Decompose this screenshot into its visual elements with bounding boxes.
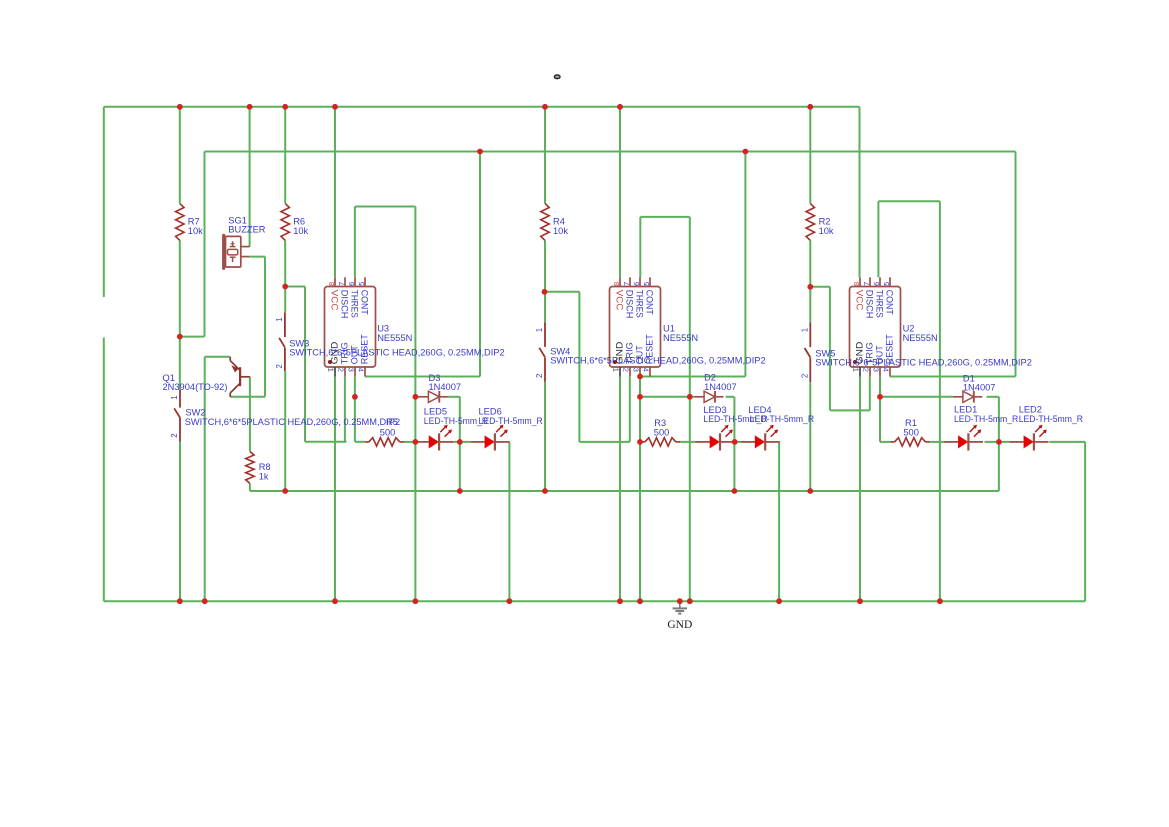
svg-text:7: 7 [337,282,346,286]
resistor R6 [281,203,289,240]
wire reset rail left drop [204,152,206,337]
junction [732,488,738,494]
svg-text:4: 4 [357,368,366,372]
wire R1 to LED1 [930,441,944,443]
svg-text:BUZZER: BUZZER [228,225,265,235]
svg-text:5: 5 [882,282,891,286]
op-amp U2 (NE555N timer) [850,277,901,376]
resistor R7 [176,203,184,240]
wire SW3 bottom to mid rail [284,371,286,491]
svg-text:1: 1 [170,395,179,399]
svg-text:CONT: CONT [884,290,894,316]
resistor R5 [365,438,404,446]
junction [743,149,749,155]
junction [332,598,338,604]
wire reset rail horizontal [205,151,1016,153]
wire U2 VCC drop [859,107,861,277]
LED LED5 [415,425,454,451]
diode D1 [953,391,982,403]
svg-text:THRES: THRES [634,290,644,318]
junction [332,104,338,110]
wire base to R8 [249,377,251,452]
svg-text:NE555N: NE555N [903,333,938,343]
LED LED1 [944,425,983,451]
svg-text:3: 3 [632,368,641,372]
svg-text:U3: U3 [377,323,389,333]
junction [177,334,183,340]
svg-text:NE555N: NE555N [377,333,412,343]
LED LED3 [695,425,734,451]
wire D1 cathode link [987,396,999,398]
wire U2 gnd pin column [859,377,861,602]
wire to U2 pin4 [890,376,1015,378]
svg-text:500: 500 [903,427,919,437]
ground [667,601,692,631]
wire R4 top [544,107,546,204]
wire U1 reset row [640,376,745,378]
junction [282,104,288,110]
wire ground rail [104,600,1085,602]
wire buzzer top feed [249,107,251,247]
transistor Q1 [230,357,250,397]
svg-text:1: 1 [612,368,621,372]
junction [877,394,883,400]
wire U3 bracket top [355,206,416,208]
wire LED2 cathode drop [1084,442,1086,601]
wire D3 cathode link [448,396,460,398]
wire U1 VCC column [619,107,621,277]
svg-text:THRES: THRES [874,290,884,318]
buzzer SG1 [224,235,250,268]
wire U1 reset riser [744,152,746,377]
junction [776,598,782,604]
wire VCC top rail [104,106,860,108]
wire emitter column to ground [204,357,206,601]
wire SW4 bottom to mid rail [544,382,546,491]
svg-text:8: 8 [852,282,861,286]
wire U3 out pin drop [354,377,356,442]
stray ellipse mark [554,75,560,79]
resistor R4 [541,203,549,240]
op-amp U3 (NE555N timer) [325,277,376,376]
wire U3 VCC column [334,107,336,277]
svg-text:3: 3 [872,368,881,372]
wire LED2 cathode run [1049,441,1085,443]
wire collector row [230,396,265,398]
wire U2 out elbow [880,441,891,443]
junction [352,394,358,400]
wire R8 bottom [249,483,251,491]
wire D2 anode row [640,396,694,398]
wire D1 anode row [880,396,953,398]
svg-text:GND: GND [667,619,692,631]
wire branch drop block2 [578,292,580,442]
resistor R3 [641,438,680,446]
wire R2 node branch [810,286,830,288]
wire R3 to LED3 [679,441,695,443]
junction [413,598,419,604]
svg-text:1: 1 [800,328,809,332]
svg-text:6: 6 [872,282,881,286]
svg-text:8: 8 [327,282,336,286]
svg-text:2: 2 [535,374,544,378]
wire reset rail elbow to Q1 node [180,336,205,338]
switch SW4 [535,322,545,382]
resistor R1 [891,438,930,446]
wire U2 bracket leg to ground [939,201,941,601]
svg-text:CONT: CONT [644,290,654,316]
svg-text:1k: 1k [259,471,269,481]
junction [177,598,183,604]
junction [996,439,1002,445]
svg-text:2: 2 [800,374,809,378]
junction [413,394,419,400]
resistor R2 [806,203,814,240]
svg-text:DISCH: DISCH [864,290,874,319]
resistor R8 [246,452,254,484]
junction [807,488,813,494]
svg-text:1: 1 [327,368,336,372]
junction [937,598,943,604]
junction [637,374,643,380]
switch SW5 [800,323,810,383]
diode D2 [694,391,723,403]
svg-text:LED-TH-5mm_R: LED-TH-5mm_R [479,416,544,426]
svg-text:CONT: CONT [359,290,369,316]
wire U3 reset row [365,376,480,378]
svg-text:SW2: SW2 [185,407,205,417]
svg-text:VCC: VCC [854,290,864,311]
svg-text:1: 1 [852,368,861,372]
wire D2 drop to mid rail [733,397,735,491]
svg-text:NE555N: NE555N [663,333,698,343]
wire trig row block1 [305,441,347,443]
junction [637,439,643,445]
wire U2 out pin drop [879,377,881,442]
wire U2 bracket top [878,200,940,202]
junction [617,104,623,110]
junction [687,394,693,400]
wire U3 bracket leg to ground [414,207,416,602]
junction [637,394,643,400]
wire U1 gnd pin column [619,377,621,602]
junction [677,598,683,604]
wire buzzer bottom pin link [249,256,265,258]
wire U2 thres riser [877,201,879,277]
wire U1 thres riser [639,217,641,277]
wire U3 gnd pin column [334,377,336,602]
svg-text:10k: 10k [188,226,203,236]
svg-text:SWITCH,6*6*5PLASTIC HEAD,260G,: SWITCH,6*6*5PLASTIC HEAD,260G, 0.25MM,DI… [185,417,400,427]
wire left-edge lower segment [103,338,105,602]
LED LED4 [741,425,780,451]
switch SW2 [170,390,180,442]
wire LED4 cathode to ground [778,442,780,601]
svg-text:LED-TH-5mm_R: LED-TH-5mm_R [954,414,1019,424]
svg-text:3: 3 [347,368,356,372]
wire R4 node branch [545,291,580,293]
wire R6 top [284,107,286,204]
wire R7 bottom to node [179,240,181,390]
wire branch drop to trig row [304,287,306,442]
svg-text:10k: 10k [553,226,568,236]
wire U3 thres riser [354,207,356,278]
svg-text:8: 8 [612,282,621,286]
wire trig row block2 [579,441,629,443]
wire R6 node branch [285,286,305,288]
svg-text:7: 7 [862,282,871,286]
wire U1 trig riser [629,377,631,442]
svg-text:LED-TH-5mm_R: LED-TH-5mm_R [750,414,815,424]
LED LED6 [470,425,509,451]
svg-text:2: 2 [170,433,179,437]
wire buzzer to collector drop [264,257,266,397]
svg-text:10k: 10k [293,226,308,236]
wire R5 to LED5 [404,441,415,443]
wire U3 reset riser [479,152,481,377]
junction [282,488,288,494]
wire D2 cathode link [726,396,735,398]
wire LED3 to LED4 [735,441,741,443]
wire D3 anode stub [415,396,418,398]
svg-text:1: 1 [275,317,284,321]
wire LED6 cathode to ground [508,442,510,601]
svg-text:2: 2 [337,368,346,372]
wire D3 drop to mid rail [459,397,461,491]
junction [477,149,483,155]
svg-text:5: 5 [642,282,651,286]
svg-text:SWITCH,6*6*5PLASTIC HEAD,260G,: SWITCH,6*6*5PLASTIC HEAD,260G, 0.25MM,DI… [550,356,765,366]
junction [637,598,643,604]
wire U3 trig pin drop [344,377,346,442]
wire U2 trig riser [869,377,871,411]
wire R2 to SW5 [809,240,811,322]
svg-text:4: 4 [882,368,891,372]
junction [247,104,253,110]
svg-text:U1: U1 [663,323,675,333]
wire mid rail 491 [250,490,999,492]
wire SW2 bottom to ground rail [179,442,181,602]
junction [177,104,183,110]
wire branch drop block3 [829,287,831,411]
wire U1 bracket leg to ground [689,217,691,601]
svg-text:500: 500 [654,427,670,437]
wire R6 to SW3 [284,240,286,312]
wire trig row block3 [830,409,870,411]
svg-text:1N4007: 1N4007 [429,382,462,392]
svg-text:1: 1 [535,328,544,332]
wire R7 top [179,107,181,204]
svg-text:500: 500 [380,427,396,437]
svg-text:1N4007: 1N4007 [963,383,996,393]
svg-text:VCC: VCC [329,290,339,311]
wire R4 to SW4 [544,240,546,322]
svg-text:LED-TH-5mm_R: LED-TH-5mm_R [1019,414,1084,424]
svg-text:7: 7 [622,282,631,286]
svg-text:R5: R5 [386,417,398,427]
junction [687,598,693,604]
junction [457,488,463,494]
diode D3 [418,391,447,403]
junction [542,289,548,295]
wire left-edge upper segment [103,107,105,297]
wire D1 drop to mid rail [998,397,1000,491]
svg-text:1N4007: 1N4007 [704,382,737,392]
wire emitter row [205,356,231,358]
svg-text:THRES: THRES [349,290,359,318]
svg-text:2: 2 [622,368,631,372]
svg-text:10k: 10k [819,226,834,236]
junction [457,439,463,445]
junction [732,439,738,445]
wire U3 out elbow [355,441,365,443]
svg-text:2: 2 [862,368,871,372]
switch SW3 [275,312,285,371]
svg-text:2: 2 [275,364,284,368]
junction [282,284,288,290]
junction [413,439,419,445]
junction [542,104,548,110]
svg-text:5: 5 [357,282,366,286]
wire reset rail right drop [1015,152,1017,377]
junction [507,598,513,604]
svg-text:SWITCH,6*6*5PLASTIC HEAD,260G,: SWITCH,6*6*5PLASTIC HEAD,260G, 0.25MM,DI… [289,348,504,358]
svg-text:DISCH: DISCH [339,290,349,319]
svg-text:SWITCH,6*6*5PLASTIC HEAD,260G,: SWITCH,6*6*5PLASTIC HEAD,260G, 0.25MM,DI… [815,358,1032,368]
wire LED5 to LED6 [454,441,470,443]
LED LED2 [1009,425,1048,451]
svg-text:4: 4 [642,368,651,372]
wire R2 top [809,107,811,204]
wire LED1 to LED2 [985,441,1010,443]
svg-text:U2: U2 [903,323,915,333]
svg-text:DISCH: DISCH [624,290,634,319]
junction [617,598,623,604]
svg-text:6: 6 [632,282,641,286]
junction [807,104,813,110]
svg-text:2N3904(TO-92): 2N3904(TO-92) [163,382,228,392]
svg-text:VCC: VCC [614,290,624,311]
svg-text:6: 6 [347,282,356,286]
op-amp U1 (NE555N timer) [610,277,661,376]
junction [202,598,208,604]
wire U1 bracket top [640,216,690,218]
junction [542,488,548,494]
wire SW5 bottom to mid rail [809,382,811,491]
junction [807,284,813,290]
wire U1 out column to ground [639,377,641,602]
junction [857,598,863,604]
